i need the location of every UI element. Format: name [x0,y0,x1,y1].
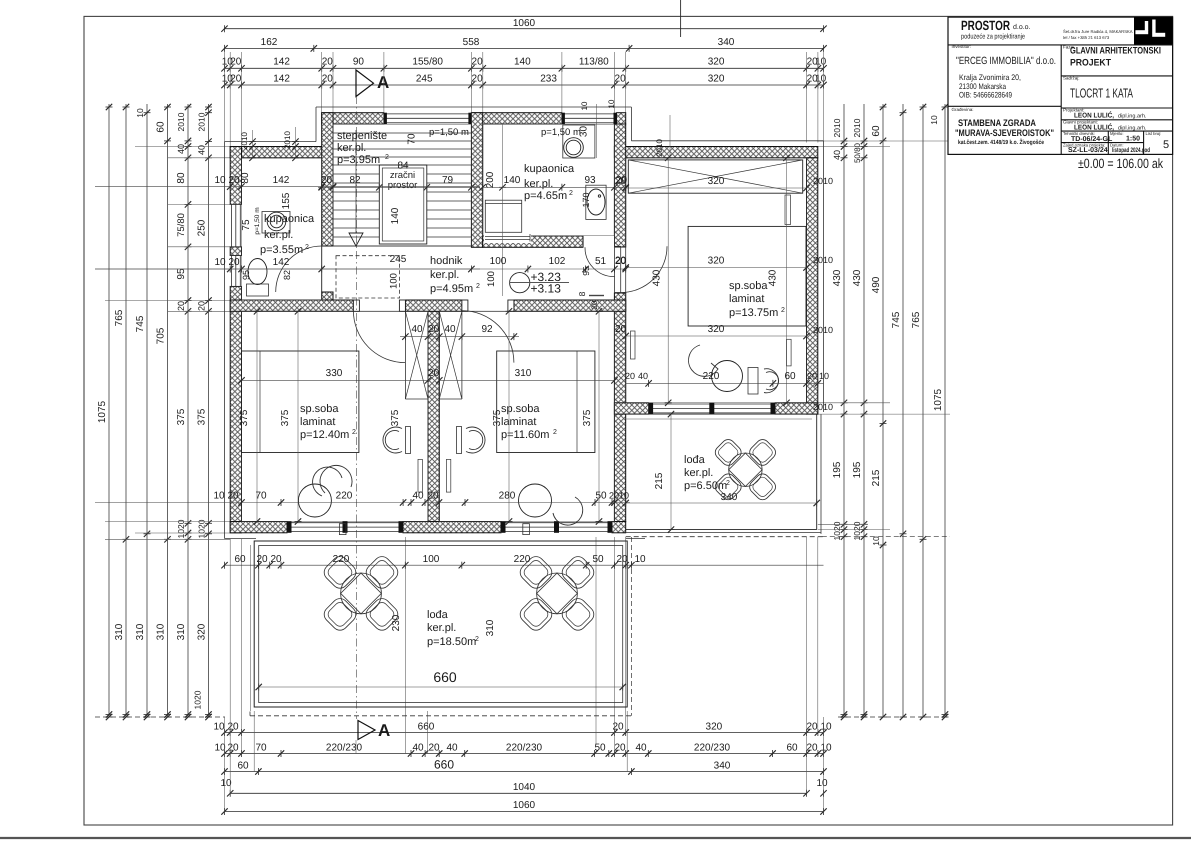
svg-text:200: 200 [485,171,496,188]
svg-text:20: 20 [472,57,484,68]
svg-text:p=6.50m: p=6.50m [684,480,727,492]
svg-text:320: 320 [708,57,725,68]
svg-text:List broj:: List broj: [1146,131,1162,136]
svg-text:102: 102 [549,256,566,267]
svg-text:2010: 2010 [609,491,629,501]
svg-text:20: 20 [590,300,599,309]
svg-text:Sadržaj:: Sadržaj: [1063,76,1080,81]
svg-text:60: 60 [871,125,882,137]
svg-text:10: 10 [213,722,225,733]
svg-text:375: 375 [176,408,187,425]
svg-text:OIB: 54666628649: OIB: 54666628649 [959,91,1012,100]
svg-text:10: 10 [214,257,226,268]
svg-text:2: 2 [726,480,730,487]
svg-text:340: 340 [714,760,731,771]
svg-text:140: 140 [504,175,521,186]
svg-text:20: 20 [197,301,207,311]
svg-text:195: 195 [852,461,863,478]
svg-text:PROSTOR: PROSTOR [961,18,1010,33]
svg-text:70: 70 [407,133,418,145]
svg-text:245: 245 [416,73,433,84]
svg-text:40: 40 [176,144,186,154]
svg-text:100: 100 [389,273,400,289]
svg-text:GLAVNI ARHITEKTONSKI: GLAVNI ARHITEKTONSKI [1070,46,1161,57]
svg-text:490: 490 [871,276,882,293]
svg-text:p=1,50 m: p=1,50 m [254,207,261,234]
svg-text:30: 30 [579,126,590,138]
svg-text:320: 320 [708,324,725,335]
svg-text:220/230: 220/230 [694,743,731,754]
svg-text:375: 375 [492,409,503,426]
svg-text:p=4.65m: p=4.65m [524,190,567,202]
svg-text:745: 745 [891,311,902,328]
svg-text:stepenište: stepenište [337,130,387,142]
svg-text:2010: 2010 [240,132,249,150]
svg-text:142: 142 [273,175,290,186]
svg-text:ker.pl.: ker.pl. [524,178,553,190]
svg-text:310: 310 [156,623,167,640]
svg-text:2: 2 [553,429,557,436]
svg-text:ker.pl.: ker.pl. [427,622,456,634]
svg-text:320: 320 [197,623,208,640]
svg-text:660: 660 [418,722,435,733]
svg-text:10: 10 [634,554,646,565]
svg-text:laminat: laminat [300,416,335,428]
svg-text:660: 660 [434,757,454,771]
svg-text:sp.soba: sp.soba [300,403,339,415]
svg-text:375: 375 [197,408,208,425]
svg-text:330: 330 [326,368,343,379]
svg-text:82: 82 [349,175,361,186]
svg-text:20: 20 [176,301,186,311]
svg-text:prostor: prostor [388,180,418,191]
svg-text:60: 60 [234,554,246,565]
svg-text:375: 375 [582,409,593,426]
svg-text:2: 2 [475,636,479,643]
svg-text:5: 5 [1163,139,1169,151]
svg-text:20: 20 [428,368,440,379]
svg-text:220: 220 [333,554,350,565]
svg-text:50: 50 [592,554,604,565]
svg-text:50/80: 50/80 [853,142,862,163]
svg-text:70: 70 [255,743,267,754]
svg-text:20: 20 [227,491,239,502]
svg-text:250: 250 [197,219,208,236]
svg-text:220: 220 [336,491,353,502]
svg-text:10: 10 [815,73,827,84]
svg-text:dipl.ing.arh.: dipl.ing.arh. [1118,114,1147,120]
svg-text:375: 375 [239,409,250,426]
svg-text:laminat: laminat [729,293,764,305]
svg-text:60: 60 [237,760,249,771]
svg-text:1040: 1040 [513,782,536,793]
svg-text:2010: 2010 [832,118,842,137]
svg-text:10: 10 [580,101,589,110]
svg-text:Šet.dr.fra Jure Radića 4, MAKA: Šet.dr.fra Jure Radića 4, MAKARSKA [1063,29,1133,34]
svg-text:1:50: 1:50 [1126,136,1140,143]
svg-text:20: 20 [616,554,628,565]
svg-text:p=3.95m: p=3.95m [337,154,380,166]
svg-text:40: 40 [638,371,648,381]
svg-text:310: 310 [135,623,146,640]
svg-text:2010: 2010 [813,402,833,412]
svg-text:220/230: 220/230 [326,743,363,754]
svg-text:20: 20 [270,554,282,565]
svg-text:Građevina:: Građevina: [952,107,974,112]
svg-text:TLOCRT 1 KATA: TLOCRT 1 KATA [1070,86,1133,101]
svg-text:1075: 1075 [933,388,944,411]
svg-text:p=4.95m: p=4.95m [430,283,473,295]
svg-text:100: 100 [486,271,497,287]
svg-text:20: 20 [322,73,334,84]
svg-text:SZ-LL-03/24: SZ-LL-03/24 [1068,146,1108,154]
svg-text:lođa: lođa [684,454,706,466]
svg-text:75: 75 [241,219,252,231]
svg-text:220/230: 220/230 [506,743,543,754]
svg-text:40: 40 [635,743,647,754]
svg-text:ker.pl.: ker.pl. [337,142,366,154]
svg-text:kupaonica: kupaonica [524,163,575,175]
svg-text:705: 705 [156,327,167,344]
svg-text:280: 280 [499,491,516,502]
svg-text:p=11.60m: p=11.60m [501,429,549,441]
svg-text:195: 195 [832,461,843,478]
svg-text:320: 320 [706,722,723,733]
svg-text:310: 310 [176,623,187,640]
svg-text:20: 20 [615,256,627,267]
svg-text:p=1,50 m: p=1,50 m [429,127,469,138]
svg-text:10: 10 [213,491,225,502]
svg-text:142: 142 [273,73,290,84]
svg-text:LEON LULIĆ,: LEON LULIĆ, [1074,122,1114,131]
svg-text:1060: 1060 [513,800,536,811]
svg-text:LEON LULIĆ,: LEON LULIĆ, [1074,111,1114,120]
svg-text:8: 8 [577,291,587,296]
svg-text:20: 20 [228,175,240,186]
svg-text:745: 745 [135,315,146,332]
svg-text:lođa: lođa [427,609,449,621]
svg-text:10: 10 [820,722,832,733]
svg-text:20: 20 [230,73,242,84]
svg-text:100: 100 [423,554,440,565]
svg-text:2010: 2010 [852,118,862,137]
svg-text:375: 375 [390,409,401,426]
svg-text:1060: 1060 [513,18,536,29]
svg-text:10: 10 [871,536,881,546]
svg-text:80: 80 [176,172,187,184]
svg-text:20: 20 [614,743,626,754]
svg-text:p=18.50m: p=18.50m [427,636,476,648]
svg-text:2: 2 [352,429,356,436]
svg-text:215: 215 [654,472,665,489]
svg-text:listopad 2024.god: listopad 2024.god [1112,147,1150,154]
svg-text:2010: 2010 [283,131,292,149]
svg-text:2010: 2010 [197,112,207,131]
svg-text:10: 10 [820,743,832,754]
svg-text:60: 60 [784,371,796,382]
svg-text:113/80: 113/80 [579,57,609,68]
svg-text:95: 95 [581,266,591,276]
svg-text:sp.soba: sp.soba [501,403,540,415]
svg-text:1020: 1020 [193,690,203,709]
svg-text:Investitor:: Investitor: [952,44,972,49]
svg-text:79: 79 [442,175,454,186]
svg-text:310: 310 [114,623,125,640]
svg-text:340: 340 [718,37,735,48]
svg-text:sp.soba: sp.soba [729,280,768,292]
svg-text:2: 2 [476,283,480,290]
svg-text:40: 40 [832,150,842,160]
svg-text:20: 20 [615,324,627,335]
svg-text:1075: 1075 [97,400,108,423]
svg-text:poduzeće za projektiranje: poduzeće za projektiranje [961,33,1025,41]
svg-text:320: 320 [708,73,725,84]
svg-text:2: 2 [781,307,785,314]
svg-text:220: 220 [514,554,531,565]
svg-text:10: 10 [816,778,828,789]
svg-text:310: 310 [485,619,496,636]
svg-text:d.o.o.: d.o.o. [1013,23,1031,31]
svg-text:2: 2 [569,190,573,197]
svg-text:p=3.55m: p=3.55m [260,244,303,256]
svg-text:Kralja Zvonimira 20,: Kralja Zvonimira 20, [959,73,1021,82]
svg-text:20: 20 [806,722,818,733]
svg-text:430: 430 [652,269,663,286]
svg-text:233: 233 [540,73,557,84]
svg-text:p=12.40m: p=12.40m [300,429,349,441]
svg-text:50: 50 [595,491,607,502]
svg-text:2: 2 [385,154,389,161]
svg-text:40: 40 [412,743,424,754]
svg-text:2010: 2010 [813,176,833,186]
svg-text:20: 20 [472,73,484,84]
svg-text:93: 93 [584,175,596,186]
svg-text:155: 155 [281,192,292,209]
svg-text:20: 20 [615,176,627,187]
svg-text:10: 10 [607,99,616,108]
svg-text:ker.pl.: ker.pl. [684,467,713,479]
svg-text:220: 220 [703,371,720,382]
svg-text:40: 40 [446,743,458,754]
svg-text:"MURAVA-SJEVEROISTOK": "MURAVA-SJEVEROISTOK" [955,128,1054,139]
svg-text:375: 375 [280,409,291,426]
svg-text:20: 20 [428,324,440,335]
svg-text:142: 142 [273,57,290,68]
svg-text:20: 20 [427,491,439,502]
svg-text:80: 80 [240,172,251,184]
svg-text:A: A [377,73,389,92]
svg-text:215: 215 [871,469,882,486]
svg-text:95: 95 [241,270,251,280]
svg-text:2010: 2010 [813,255,833,265]
svg-text:170: 170 [581,192,591,207]
svg-text:kupaonica: kupaonica [264,213,315,225]
svg-text:ker.pl.: ker.pl. [430,269,459,281]
svg-text:430: 430 [852,269,863,286]
svg-text:2010: 2010 [813,325,833,335]
svg-text:310: 310 [515,368,532,379]
svg-text:90: 90 [353,57,365,68]
svg-text:20: 20 [615,73,627,84]
svg-text:A: A [378,721,390,740]
svg-text:2010: 2010 [655,139,664,157]
svg-text:p=1,50 m: p=1,50 m [541,127,581,138]
svg-text:162: 162 [261,37,278,48]
svg-text:40: 40 [411,324,423,335]
svg-text:82: 82 [282,270,292,280]
svg-text:320: 320 [708,176,725,187]
svg-text:10: 10 [819,371,829,381]
svg-text:320: 320 [708,256,725,267]
svg-text:hodnik: hodnik [430,255,463,267]
svg-text:p=13.75m: p=13.75m [729,307,778,319]
svg-text:60: 60 [786,743,798,754]
svg-text:75/80: 75/80 [176,213,187,237]
svg-text:51: 51 [595,256,607,267]
svg-text:20: 20 [322,57,334,68]
svg-text:20: 20 [228,257,240,268]
svg-text:20: 20 [321,175,333,186]
svg-text:20: 20 [625,371,635,381]
svg-text:2010: 2010 [176,112,186,131]
svg-text:10: 10 [929,115,939,125]
svg-text:1020: 1020 [197,519,207,538]
svg-text:tel / fax +385 21 613 673: tel / fax +385 21 613 673 [1063,35,1110,40]
svg-text:430: 430 [832,269,843,286]
svg-text:10: 10 [214,175,226,186]
svg-text:+3.13: +3.13 [531,282,562,296]
svg-text:20: 20 [227,743,239,754]
svg-text:kat.čest.zem. 4148/19 k.o. Živ: kat.čest.zem. 4148/19 k.o. Živogošće [958,138,1045,146]
svg-text:70: 70 [255,491,267,502]
svg-text:20: 20 [230,57,242,68]
svg-text:142: 142 [273,257,290,268]
svg-text:100: 100 [490,256,507,267]
svg-text:Mjerilo:: Mjerilo: [1110,131,1124,136]
svg-text:20: 20 [807,371,817,381]
svg-text:1020: 1020 [176,519,186,538]
svg-text:95: 95 [176,268,187,280]
svg-text:60: 60 [156,121,167,133]
svg-text:40: 40 [412,491,424,502]
svg-text:20: 20 [428,743,440,754]
svg-text:10: 10 [815,57,827,68]
svg-text:765: 765 [114,309,125,326]
svg-text:"ERCEG IMMOBILIA" d.o.o.: "ERCEG IMMOBILIA" d.o.o. [956,55,1056,67]
svg-text:laminat: laminat [501,416,536,428]
svg-text:40: 40 [444,324,456,335]
svg-text:140: 140 [390,207,401,224]
svg-text:20: 20 [227,722,239,733]
svg-text:430: 430 [768,269,779,286]
svg-text:558: 558 [463,37,480,48]
svg-text:20: 20 [256,554,268,565]
svg-text:140: 140 [514,57,531,68]
svg-text:660: 660 [433,669,457,685]
svg-text:±0.00 = 106.00 ak: ±0.00 = 106.00 ak [1078,156,1163,171]
svg-text:92: 92 [481,324,493,335]
svg-text:155/80: 155/80 [412,57,443,68]
svg-text:20: 20 [806,743,818,754]
svg-text:PROJEKT: PROJEKT [1070,58,1111,69]
svg-text:765: 765 [911,311,922,328]
